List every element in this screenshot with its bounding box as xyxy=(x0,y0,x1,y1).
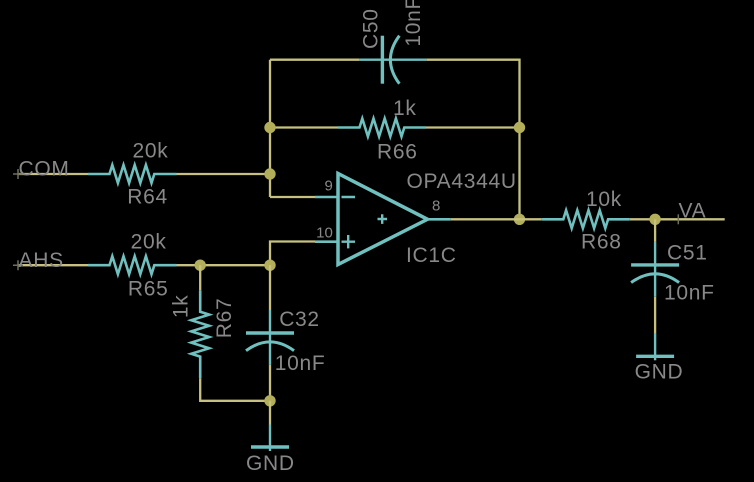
junction dot left rail / R66 xyxy=(264,122,275,133)
wire R65 to junctions xyxy=(177,264,271,266)
svg-text:10nF: 10nF xyxy=(275,352,326,375)
svg-text:GND: GND xyxy=(246,452,295,475)
resistor R65 xyxy=(88,256,177,274)
pin number 8 xyxy=(432,198,440,215)
value 10nF (C51) xyxy=(664,282,715,305)
svg-text:AHS: AHS xyxy=(19,249,64,272)
wire top loop horizontal right xyxy=(426,60,519,128)
svg-text:1k: 1k xyxy=(393,97,417,120)
node AHS label xyxy=(19,249,64,272)
op-amp IC1C xyxy=(315,174,451,265)
value 1k (R67, rotated) xyxy=(170,295,193,319)
pin cross COM xyxy=(13,169,23,179)
pin cross AHS xyxy=(13,260,23,270)
svg-text:C50: C50 xyxy=(359,8,382,49)
junction dot right rail / output xyxy=(514,214,525,225)
svg-text:10nF: 10nF xyxy=(664,282,715,305)
svg-text:1k: 1k xyxy=(170,295,193,319)
name C50 (rotated) xyxy=(359,8,382,49)
wire C32 bottom to junction xyxy=(269,365,271,401)
svg-text:10: 10 xyxy=(316,224,333,241)
ground label GND (right) xyxy=(635,361,684,384)
wire R67 bottom to corner xyxy=(200,378,270,401)
junction dot AHS / riser / C32 xyxy=(264,260,275,271)
junction dot AHS / R67 xyxy=(195,260,206,271)
ground GND (left) xyxy=(251,425,289,452)
name R68 xyxy=(581,231,622,254)
wire plus input riser xyxy=(270,242,315,266)
name IC1C xyxy=(406,244,457,267)
svg-text:C32: C32 xyxy=(279,308,320,331)
name R67 (rotated) xyxy=(213,298,236,339)
node COM label xyxy=(19,158,70,181)
junction dot bottom node xyxy=(264,395,275,406)
name R65 xyxy=(128,277,169,300)
value 1k (R66) xyxy=(393,97,417,120)
ground GND (right) xyxy=(636,333,674,360)
svg-text:R64: R64 xyxy=(127,186,168,209)
svg-text:OPA4344U: OPA4344U xyxy=(407,170,517,193)
svg-text:COM: COM xyxy=(19,158,70,181)
svg-text:9: 9 xyxy=(324,178,332,195)
svg-text:GND: GND xyxy=(635,361,684,384)
node VA label xyxy=(679,200,707,223)
wire AHS net: pin stub to R65 xyxy=(18,264,88,266)
wire C51 top stub xyxy=(654,219,656,242)
capacitor C32 xyxy=(246,310,294,365)
pin cross VA xyxy=(677,214,679,224)
svg-text:VA: VA xyxy=(679,200,707,223)
svg-text:R67: R67 xyxy=(213,298,236,339)
svg-text:20k: 20k xyxy=(131,231,167,254)
name C51 xyxy=(667,242,708,265)
junction dot left rail / COM xyxy=(264,168,275,179)
svg-text:IC1C: IC1C xyxy=(406,244,457,267)
name C32 xyxy=(279,308,320,331)
capacitor C50 xyxy=(359,36,426,84)
resistor R68 xyxy=(542,210,630,228)
resistor R64 xyxy=(88,165,177,183)
wire R67 top stub xyxy=(199,265,201,290)
wire right rail vertical xyxy=(518,128,520,220)
wire C32 top stub xyxy=(269,265,271,310)
junction dot VA / C51 xyxy=(649,214,660,225)
wire R64 to left rail xyxy=(177,173,271,175)
svg-text:8: 8 xyxy=(432,198,440,215)
ground label GND (left) xyxy=(246,452,295,475)
wire minus input stub xyxy=(270,196,315,198)
wire left rail vertical xyxy=(269,60,271,197)
wire R66 to right rail xyxy=(426,126,520,128)
svg-text:C51: C51 xyxy=(667,242,708,265)
value 10nF (C32) xyxy=(275,352,326,375)
junction dot right rail / R66 xyxy=(514,122,525,133)
wire COM net: pin stub to R64 xyxy=(18,173,88,175)
resistor R67 (vertical) xyxy=(191,290,209,378)
name R66 xyxy=(377,141,418,164)
wire output to R68 xyxy=(451,218,542,220)
wire top loop horizontal left xyxy=(270,59,359,61)
svg-text:R68: R68 xyxy=(581,231,622,254)
wire bottom node to GND xyxy=(269,401,271,425)
value 20k (R65) xyxy=(131,231,167,254)
resistor R66 xyxy=(338,119,426,137)
svg-text:R65: R65 xyxy=(128,277,169,300)
wire R68 to VA node xyxy=(630,218,725,220)
pin number 10 xyxy=(316,224,333,241)
svg-text:R66: R66 xyxy=(377,141,418,164)
value 10nF (C50, rotated) xyxy=(402,0,425,47)
svg-text:10nF: 10nF xyxy=(402,0,425,47)
wire R66 row left xyxy=(270,126,338,128)
wire C51 bottom to GND xyxy=(654,297,656,333)
svg-text:10k: 10k xyxy=(586,188,622,211)
svg-text:20k: 20k xyxy=(133,140,169,163)
value 20k (R64) xyxy=(133,140,169,163)
capacitor C51 xyxy=(631,242,679,297)
value 10k (R68) xyxy=(586,188,622,211)
pin number 9 xyxy=(324,178,332,195)
value OPA4344U xyxy=(407,170,517,193)
name R64 xyxy=(127,186,168,209)
